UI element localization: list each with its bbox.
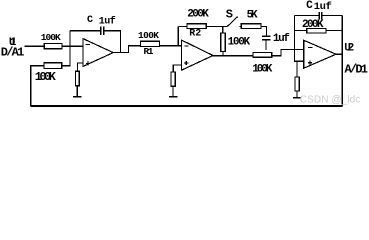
node U1 input label (1, 37, 25, 59)
wire switch to 5K (240, 25, 242, 27)
wire drop to vertical 100K (222, 26, 224, 33)
node feedback rail (stage 2) (177, 26, 179, 45)
svg-text:100K: 100K (138, 30, 159, 41)
resistor 5K (241, 10, 261, 29)
ground bar (stage 2) (169, 96, 178, 98)
ground bar (U2) (293, 97, 302, 99)
svg-text:5K: 5K (247, 10, 258, 22)
wire bottom feedback loop (31, 105, 343, 107)
ground bar (U1) (73, 96, 82, 98)
op-amp U2 (304, 40, 336, 68)
resistor (U2 plus to ground bar) (295, 77, 299, 98)
svg-text:S: S (226, 7, 233, 21)
svg-text:1uf: 1uf (99, 16, 116, 28)
wire lower-left loop (31, 66, 44, 106)
svg-text:D/A1: D/A1 (1, 45, 25, 59)
resistor 100K (stage 2 to stage 3) (252, 52, 272, 75)
op-amp U1 (83, 39, 113, 67)
svg-text:100K: 100K (41, 32, 61, 43)
svg-text:R2: R2 (189, 28, 201, 39)
resistor (U1 plus to ground bar) (75, 71, 79, 97)
wire plus-input stub U1 (77, 63, 83, 71)
wire node A to switch (206, 25, 227, 27)
svg-text:200K: 200K (302, 19, 324, 31)
svg-text:100K: 100K (35, 70, 57, 84)
wire plus-input stub (stage 2) (173, 65, 181, 72)
op-amp (stage 2) (182, 40, 214, 70)
wire to op-amp U2 minus input (272, 50, 304, 56)
wire to op-amp U1 minus input (62, 45, 83, 47)
node feedback rail (stage 3) (295, 16, 304, 62)
wire to op-amp U2a minus input (160, 45, 182, 47)
wire 5K to capacitor (261, 26, 267, 36)
resistor R2 200K (feedback) (187, 9, 209, 40)
switch S (226, 7, 238, 26)
capacitor 1uf (stage 2) (262, 33, 290, 50)
svg-text:C: C (306, 0, 313, 12)
node U2 output labels (344, 43, 368, 77)
svg-text:100K: 100K (252, 63, 272, 75)
svg-text:CSDN @_ldc: CSDN @_ldc (300, 95, 361, 106)
wire stage-2 output (213, 55, 253, 57)
svg-text:1uf: 1uf (314, 1, 332, 13)
resistor (stage-2 plus to ground bar) (171, 72, 175, 97)
node A1 feedback rail (62, 31, 70, 66)
wire node A top (178, 25, 187, 27)
resistor 100K (vertical, stage-2 feedback) (221, 33, 251, 56)
resistor R1 100K (138, 30, 160, 57)
wire input from D/A1 (24, 45, 44, 47)
svg-text:R1: R1 (144, 46, 154, 57)
svg-text:1uf: 1uf (273, 33, 290, 45)
wire U2 plus-input drop (296, 61, 298, 77)
wire U1 output (113, 46, 140, 53)
wire U2 output (336, 53, 342, 55)
svg-text:200K: 200K (187, 9, 209, 21)
wire right rail (341, 16, 343, 106)
capacitor C 1uf (U1 feedback) (70, 15, 121, 53)
svg-text:100K: 100K (228, 37, 251, 49)
resistor 100K (input, upper) (41, 32, 62, 49)
capacitor C 1uf (U2 feedback) (295, 0, 343, 19)
resistor 100K (feedback from bottom wire, lower) (35, 63, 62, 84)
svg-text:C: C (87, 15, 93, 26)
svg-text:A/D1: A/D1 (345, 62, 369, 76)
svg-text:U2: U2 (344, 43, 354, 55)
resistor 200K (U2 feedback) (295, 19, 343, 33)
